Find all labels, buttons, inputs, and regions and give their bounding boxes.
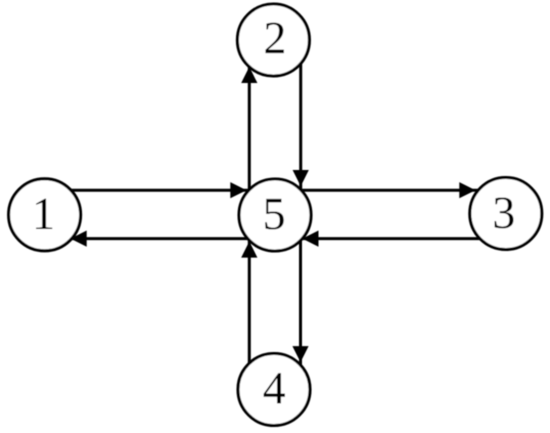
arrowhead into node 2 from node 5	[241, 67, 257, 83]
arrowhead into node 5 from node 3	[302, 231, 318, 247]
arrowhead into node 1 from node 5	[71, 231, 87, 247]
node 2 label	[265, 23, 283, 53]
wire edge 5 to 1 (lower horizontal left)	[45, 237, 275, 240]
node 5 circle	[239, 179, 311, 251]
node 4 circle	[238, 354, 310, 426]
node 4 label	[264, 373, 285, 403]
node 3 circle	[470, 178, 542, 250]
wire edge 4 to 5 (left vertical bottom)	[248, 215, 251, 390]
node 1 circle	[9, 179, 81, 251]
arrowhead into node 3 from node 5	[459, 182, 475, 198]
node 3 label	[495, 197, 514, 228]
node 5 label	[265, 199, 284, 230]
arrowhead into node 5 from node 1	[230, 182, 246, 198]
arrowhead into node 4 from node 5	[292, 346, 308, 362]
wire edge 2 to 5 (right vertical top)	[299, 40, 302, 215]
arrowhead into node 5 from node 4	[241, 241, 257, 257]
wire edge 5 to 4 (right vertical bottom)	[299, 215, 302, 390]
wire edge 5 to 2 (left vertical top)	[248, 40, 251, 215]
node 1 label	[36, 199, 52, 229]
node 2 circle	[237, 4, 309, 76]
wire edge 1 to 5 (upper horizontal left)	[45, 189, 275, 192]
wire edge 5 to 3 (upper horizontal right)	[275, 189, 506, 192]
wire edge 3 to 5 (lower horizontal right)	[275, 237, 506, 240]
arrowhead into node 5 from node 2	[293, 170, 309, 186]
